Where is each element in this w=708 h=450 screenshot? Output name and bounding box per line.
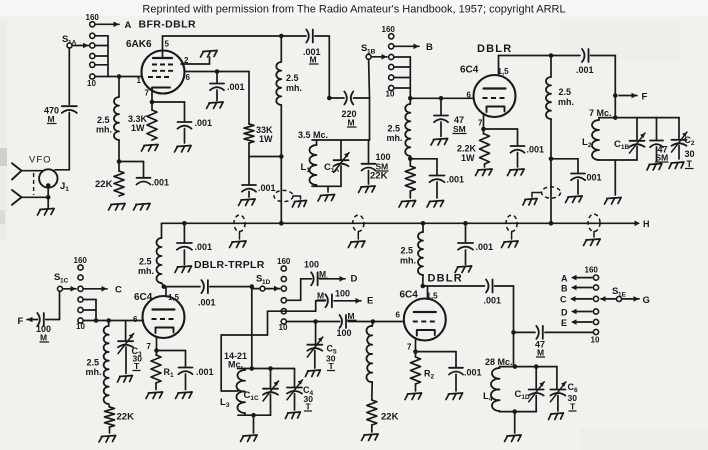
svg-text:2.5: 2.5 — [97, 115, 110, 125]
svg-text:6AK6: 6AK6 — [126, 39, 152, 50]
capacitor .001 coupling U2 — [576, 49, 615, 75]
inductor 2.5mh S1B choke — [387, 98, 411, 156]
wire contact5 tap line — [221, 311, 286, 391]
svg-text:.001: .001 — [195, 118, 213, 128]
resistor R1 — [151, 351, 174, 390]
header caption text — [142, 4, 565, 16]
svg-text:mh.: mh. — [86, 367, 102, 377]
svg-text:mh.: mh. — [400, 256, 416, 266]
wire cathode pin 7 — [150, 90, 185, 104]
VFO block — [29, 155, 58, 188]
svg-text:M: M — [348, 118, 355, 128]
ground below C4 — [285, 412, 300, 419]
node F output arrow — [619, 92, 648, 103]
svg-text:7 Mc.: 7 Mc. — [589, 108, 612, 118]
ground below C3 — [118, 376, 133, 383]
capacitor .001 grid — [137, 178, 170, 188]
label 7Mc. — [589, 108, 612, 118]
svg-text:T: T — [306, 402, 312, 412]
svg-text:.001: .001 — [576, 65, 594, 75]
pin labels U2 — [467, 91, 484, 128]
svg-text:28 Mc.: 28 Mc. — [485, 357, 513, 367]
connector J1 shield dashed — [33, 173, 35, 195]
svg-text:22K: 22K — [117, 412, 135, 423]
switch S1D wiper and label — [256, 274, 280, 292]
capacitor C3 variable — [118, 321, 142, 374]
tube 6C4 U4 envelope — [400, 290, 446, 341]
svg-text:10: 10 — [386, 90, 395, 99]
svg-text:2.5: 2.5 — [87, 358, 100, 368]
svg-text:6: 6 — [133, 315, 138, 324]
node A return arrow — [561, 274, 592, 284]
ground below bus feedthrough 4 — [584, 239, 601, 246]
capacitor 47 SM grid — [434, 98, 466, 136]
resistor 22K stage4 — [367, 400, 399, 432]
node B output arrow — [394, 42, 433, 53]
ground below .001 stage2 — [427, 201, 444, 208]
svg-text:10: 10 — [591, 336, 600, 345]
wire to S1B wiper — [368, 59, 371, 140]
svg-text:T: T — [329, 361, 335, 371]
svg-text:7: 7 — [145, 89, 150, 98]
wire down to 220M line — [327, 36, 332, 100]
node E output arrow — [334, 296, 373, 307]
ground below tank4 — [505, 435, 522, 442]
ground below bus feedthrough 3 — [502, 241, 519, 248]
wire tank2 to ground — [614, 160, 616, 195]
svg-text:.001: .001 — [447, 175, 465, 185]
ground below cathode cap U3 — [176, 392, 193, 399]
resistor 22K stage3 — [105, 404, 135, 433]
svg-text:D: D — [561, 308, 568, 318]
svg-text:6C4: 6C4 — [400, 290, 419, 301]
ground below tank3 — [241, 435, 258, 442]
capacitor C5 variable — [307, 322, 337, 372]
ground below screen cap — [207, 102, 224, 109]
wire B+ bus — [162, 219, 650, 229]
svg-text:.001: .001 — [198, 298, 216, 308]
svg-text:BFR-DBLR: BFR-DBLR — [139, 19, 196, 31]
svg-text:.001: .001 — [584, 173, 602, 183]
capacitor .001 M output — [303, 30, 329, 65]
switch S1C wiper and label — [54, 272, 76, 292]
svg-text:T: T — [570, 402, 576, 412]
svg-text:5: 5 — [165, 40, 170, 49]
svg-text:2.5: 2.5 — [401, 246, 414, 256]
svg-text:6C4: 6C4 — [460, 65, 479, 76]
ground below bus feedthrough 2 — [348, 241, 365, 248]
svg-text:.001: .001 — [195, 242, 213, 252]
tube 6AK6 cathode — [152, 88, 170, 91]
wire tank3 to ground — [253, 415, 255, 433]
ground below C2 — [669, 162, 684, 169]
wire choke to 22K — [117, 140, 122, 171]
tank3 bottom wire — [238, 413, 271, 418]
wire tank4 to ground — [514, 412, 516, 433]
wire contact4 to D cap — [286, 279, 311, 301]
wire S1C contact bus — [83, 300, 96, 321]
capacitor C1C variable — [244, 369, 279, 416]
tank bottom wire — [312, 185, 341, 187]
wire plate pin 1,5 riser — [498, 56, 500, 76]
wire cathode U2 — [481, 115, 517, 132]
wire plate riser U4 — [421, 284, 428, 299]
label DBLR-TRPLR — [194, 259, 265, 271]
svg-text:G: G — [643, 295, 650, 306]
inductor 2.5mh plate choke U3 — [138, 223, 164, 286]
pin labels U3 — [133, 315, 152, 351]
ground below 22K stage3 — [99, 436, 116, 443]
wire cathode U3 — [154, 337, 185, 353]
wire plate to coupling cap U4 — [423, 285, 485, 287]
svg-text:D: D — [351, 274, 358, 285]
svg-text:A: A — [125, 20, 132, 31]
switch S1A wiper and label — [62, 34, 89, 48]
wire cap to S1C wiper — [46, 292, 60, 320]
pin labels 6AK6 — [137, 56, 191, 98]
ground below bypass U2 — [566, 196, 583, 203]
capacitor 100 M to E — [317, 289, 350, 308]
svg-text:2.5: 2.5 — [286, 73, 299, 83]
label BFR-DBLR — [139, 19, 196, 31]
label J1 — [60, 181, 69, 193]
svg-text:160: 160 — [74, 256, 88, 265]
ground below cathode cap U4 — [446, 393, 463, 400]
svg-text:E: E — [561, 318, 567, 328]
tank4 top wire — [500, 364, 557, 369]
wire tank to ground — [327, 186, 329, 192]
tube 6AK6 grids dashed — [148, 65, 176, 78]
capacitor 220 M — [329, 92, 369, 128]
svg-text:mh.: mh. — [138, 266, 154, 276]
wire 33K and choke to junction — [249, 105, 284, 159]
capacitor .001 cathode U3 — [179, 351, 214, 390]
svg-text:DBLR-TRPLR: DBLR-TRPLR — [194, 259, 265, 271]
ground below bus bypass — [175, 266, 192, 273]
wire cap to U4 grid — [348, 319, 404, 324]
inductor L4 — [483, 367, 500, 412]
capacitor C1D variable — [515, 367, 545, 412]
feedthrough capacitor (plate lead) — [274, 190, 301, 201]
svg-text:DBLR: DBLR — [477, 43, 512, 55]
node bus junctions — [182, 221, 553, 226]
svg-text:M: M — [48, 114, 55, 124]
svg-text:22K: 22K — [381, 412, 399, 423]
tank4 bottom wire — [500, 409, 537, 414]
resistor 2.2K 1W — [457, 129, 490, 167]
wire S1D vertical to tank top — [251, 289, 253, 369]
wire S1A wiper to coupling cap — [68, 48, 70, 105]
svg-text:1C: 1C — [60, 278, 69, 285]
capacitor .001 stage2 grid — [430, 159, 465, 198]
label 28Mc. — [485, 357, 513, 367]
connector J1 lower prong — [12, 190, 48, 205]
wire plate to coupling cap — [499, 53, 581, 58]
inductor 2.5mh grid choke — [96, 97, 119, 140]
svg-text:100: 100 — [376, 152, 391, 162]
tank2 bottom wire — [599, 159, 637, 161]
ground below 47 SM — [431, 139, 448, 146]
ground below R2 — [405, 393, 422, 400]
capacitor 100 M to D — [304, 260, 328, 286]
svg-text:.001: .001 — [464, 368, 482, 378]
svg-text:160: 160 — [86, 13, 100, 22]
ground below .001 grid cap — [134, 204, 151, 211]
svg-text:22K: 22K — [95, 179, 113, 190]
capacitor 470 uuF (470 M) — [44, 106, 77, 125]
svg-text:2.5: 2.5 — [559, 87, 572, 97]
svg-text:7: 7 — [147, 342, 152, 351]
capacitor .001 bus bypass 2 — [458, 221, 493, 265]
feedthrough capacitor bus 1 — [234, 215, 245, 239]
svg-text:mh.: mh. — [286, 83, 302, 93]
capacitor 100 SM — [362, 140, 391, 184]
svg-text:30: 30 — [685, 149, 695, 159]
svg-text:.001: .001 — [527, 145, 545, 155]
ground at pin 2 — [201, 51, 218, 58]
inductor 2.5mh plate choke U4 — [400, 223, 423, 286]
svg-text:7: 7 — [478, 119, 483, 128]
ground below bus bypass 2 — [455, 266, 472, 273]
resistor 33K 1W — [244, 72, 273, 145]
svg-text:10: 10 — [87, 79, 96, 88]
inductor 2.5mh grid choke U4 — [366, 322, 372, 401]
wire contact5 to E cap — [286, 301, 325, 311]
switch S1B contacts — [382, 25, 396, 99]
wire coupling to wiper — [252, 287, 260, 289]
resistor R2 — [411, 352, 435, 391]
capacitor .001 plate bypass — [242, 157, 276, 198]
svg-text:2.5: 2.5 — [388, 124, 401, 134]
svg-text:10: 10 — [76, 322, 85, 331]
wire S1B contact bus — [394, 57, 411, 98]
wire plate to coupling cap U3 — [164, 286, 200, 288]
capacitor 100 M input — [36, 313, 51, 343]
svg-text:F: F — [18, 316, 24, 327]
node grid junction — [117, 74, 122, 79]
svg-text:100: 100 — [337, 328, 352, 338]
label 3.5Mc. — [298, 130, 328, 140]
inductor 2.5mh grid choke U3 — [86, 321, 109, 405]
svg-text:T: T — [134, 361, 140, 371]
wire grid junction down to choke — [118, 77, 120, 98]
svg-text:B: B — [426, 42, 433, 53]
feedthrough capacitor stage2 — [532, 187, 561, 198]
svg-text:F: F — [642, 92, 648, 103]
ground below VFO — [38, 209, 55, 216]
tube 6C4 U3 envelope — [134, 292, 185, 338]
svg-text:M: M — [319, 269, 326, 279]
svg-text:1W: 1W — [259, 134, 273, 144]
wire pin 2 to ground — [181, 57, 210, 64]
node E return arrow — [561, 318, 592, 328]
node D return arrow — [561, 308, 592, 318]
tube 6AK6 plate bar and pin 5 — [153, 36, 172, 58]
ground below plate bypass — [239, 199, 256, 206]
svg-text:6C4: 6C4 — [134, 292, 153, 303]
ground below C6 — [549, 413, 564, 420]
feedthrough capacitor bus 3 — [506, 215, 517, 239]
svg-text:Reprinted with permission from: Reprinted with permission from The Radio… — [142, 4, 565, 16]
wire S1A contact bus — [95, 36, 108, 77]
connector J1 upper prong — [12, 163, 43, 179]
node B return arrow — [561, 284, 592, 294]
svg-text:6: 6 — [467, 91, 472, 100]
inductor L3 — [220, 369, 245, 416]
switch S1A contacts — [86, 13, 100, 88]
switch S1E wiper and label — [612, 286, 627, 302]
svg-text:1W: 1W — [131, 123, 145, 133]
ground below 22K stage2 — [399, 201, 416, 208]
label DBLR — [477, 43, 512, 55]
svg-text:C: C — [560, 295, 567, 305]
capacitor .001 screen bypass — [210, 72, 245, 101]
ground below tank2 — [605, 198, 622, 205]
svg-text:M: M — [310, 55, 317, 65]
svg-text:100: 100 — [335, 289, 350, 299]
capacitor .001 cathode U4 — [449, 352, 482, 391]
capacitor .001 coupling U3 — [198, 280, 252, 307]
ground below bus feedthrough 1 — [230, 241, 247, 248]
svg-text:1W: 1W — [461, 153, 475, 163]
switch S1D contacts — [277, 257, 291, 332]
ground below 22K stage4 — [362, 434, 379, 441]
capacitor C6 variable — [550, 367, 578, 412]
node A output arrow — [95, 20, 132, 31]
wire B+ vertical to bus — [280, 157, 282, 224]
svg-text:.001: .001 — [196, 367, 214, 377]
svg-text:M: M — [537, 348, 544, 358]
capacitor 47 M output — [514, 326, 594, 358]
capacitor .001 coupling U4 — [484, 280, 514, 306]
capacitor C4 variable — [287, 369, 314, 412]
capacitor .001 plate bypass U2 — [551, 159, 602, 194]
svg-text:A: A — [561, 274, 568, 284]
svg-text:E: E — [367, 296, 373, 307]
ground below 47 SM tank2 — [647, 164, 662, 171]
svg-text:M: M — [40, 333, 47, 343]
svg-text:SM: SM — [656, 153, 669, 163]
wire S1B to 6C4 grid — [408, 96, 473, 101]
wire plate line — [163, 34, 307, 39]
svg-text:6: 6 — [396, 311, 401, 320]
node G output arrow — [622, 295, 650, 306]
wire down to F node — [613, 56, 618, 118]
svg-text:H: H — [643, 219, 650, 229]
svg-text:C: C — [115, 285, 122, 296]
wire junction to .001 cap — [119, 162, 144, 177]
feedthrough capacitor bus 2 — [353, 215, 364, 239]
node coupling junction U3 — [250, 284, 255, 289]
ground below 100 SM — [359, 186, 376, 193]
switch S1C contacts — [74, 256, 88, 331]
svg-text:mh.: mh. — [96, 125, 112, 135]
tank2 top wire — [599, 115, 679, 120]
svg-text:mh.: mh. — [387, 133, 403, 143]
svg-text:22K: 22K — [370, 171, 388, 182]
label DBLR stage4 — [428, 273, 463, 285]
wire choke to bypass junction — [549, 119, 554, 223]
ground at feedthrough stage2 — [523, 199, 537, 206]
svg-text:1: 1 — [137, 76, 142, 85]
svg-text:6: 6 — [186, 73, 191, 82]
svg-text:.001: .001 — [258, 183, 276, 193]
svg-text:2.2K: 2.2K — [457, 144, 477, 154]
wire choke junction — [408, 156, 437, 166]
inductor 2.5mh plate choke — [276, 36, 302, 105]
ground below R1 — [146, 392, 163, 399]
wire wiper to contact C — [600, 296, 616, 302]
wire cathode U4 — [413, 340, 456, 354]
svg-text:.001: .001 — [476, 242, 494, 252]
node C output arrow — [83, 285, 122, 296]
svg-text:160: 160 — [585, 266, 599, 275]
svg-text:T: T — [687, 159, 693, 169]
tube 6AK6 envelope — [126, 39, 185, 94]
ground below 22K — [109, 204, 126, 211]
tube 6C4 U2 envelope — [460, 65, 516, 118]
svg-text:DBLR: DBLR — [428, 273, 463, 285]
ground below C5 — [305, 370, 320, 377]
wire S1A to 6AK6 grid (pin 1) — [95, 76, 142, 78]
resistor 22K grid leak — [95, 171, 124, 196]
capacitor .001 cathode — [178, 102, 213, 143]
ground below 3.3K — [142, 145, 159, 152]
node F input arrow — [18, 316, 38, 327]
pin labels U4 — [396, 311, 413, 352]
resistor 3.3K 1W — [128, 102, 157, 140]
label 14-21 Mc. — [224, 351, 247, 370]
capacitor C1B variable — [614, 118, 645, 160]
capacitor C1A variable — [324, 140, 349, 186]
svg-text:M: M — [348, 311, 355, 321]
svg-text:2.5: 2.5 — [139, 257, 152, 267]
svg-text:3.5 Mc.: 3.5 Mc. — [298, 130, 328, 140]
ground below tank L1 — [318, 195, 335, 202]
wire S1C to U3 grid — [83, 318, 143, 323]
capacitor 47 SM tank2 — [650, 118, 668, 163]
svg-text:.001: .001 — [152, 178, 170, 188]
inductor L2 — [582, 118, 599, 160]
resistor 22K stage2 — [370, 166, 415, 198]
svg-text:.001: .001 — [227, 82, 245, 92]
wire pin 6 to 33K node — [185, 69, 250, 74]
svg-text:SM: SM — [453, 124, 466, 134]
inductor L1 — [301, 140, 317, 186]
node C return arrow — [560, 295, 592, 305]
svg-text:10: 10 — [279, 323, 288, 332]
ground below cathode cap U2 — [508, 169, 525, 176]
wire plate riser U3 — [162, 284, 167, 296]
svg-text:7: 7 — [407, 343, 412, 352]
ground below cathode cap — [175, 146, 192, 153]
svg-text:mh.: mh. — [558, 97, 574, 107]
wire VFO to ground — [46, 183, 51, 207]
svg-text:1,5: 1,5 — [168, 293, 180, 302]
tank3 top wire — [238, 366, 295, 371]
svg-text:M: M — [317, 291, 324, 301]
wire down to output node — [511, 286, 516, 367]
inductor 2.5mh plate choke U2 — [546, 56, 574, 120]
node D output arrow — [320, 274, 358, 285]
svg-text:.001: .001 — [484, 296, 502, 306]
tank top wire — [312, 139, 370, 141]
svg-text:VFO: VFO — [29, 155, 52, 166]
svg-text:160: 160 — [382, 25, 396, 34]
capacitor .001 cathode U2 — [511, 129, 545, 167]
capacitor C2 variable — [672, 118, 695, 169]
feedthrough capacitor bus 4 — [588, 214, 600, 237]
